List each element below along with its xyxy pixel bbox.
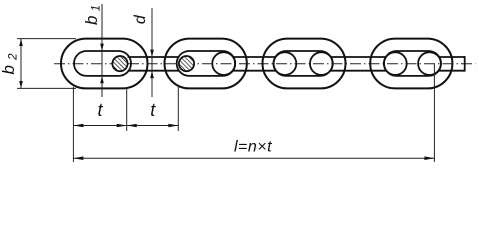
half bar at right end — [439, 56, 465, 72]
extension line right (l) — [433, 64, 435, 162]
dimension b2 (outer width) — [17, 39, 76, 89]
svg-text:b2: b2 — [0, 53, 20, 75]
label t second — [150, 100, 156, 120]
label l=n&#215;t — [234, 139, 272, 156]
link 4 outer oval — [370, 39, 452, 89]
bar (edge-on link) between link 1 and link 2 — [128, 57, 179, 71]
bar between link 2 and link 3 — [233, 57, 276, 71]
dimension b1 (inner width) — [100, 4, 104, 97]
link 3 outer oval — [263, 39, 346, 89]
eye circle link 3 right — [310, 52, 333, 75]
extension line middle (t) — [126, 89, 128, 132]
dimension d (wire diameter) — [150, 8, 154, 97]
eye circle link 4 right — [418, 52, 441, 75]
extension line left (t / l) — [72, 87, 74, 162]
label b1 — [82, 5, 103, 25]
eye circle link 3 left — [274, 52, 297, 75]
svg-text:d: d — [132, 14, 149, 24]
link 2 outer oval — [165, 39, 247, 89]
label d — [132, 14, 149, 24]
dimension l overall length — [73, 156, 434, 160]
centerline — [54, 63, 476, 65]
link 1 outer oval — [61, 39, 148, 89]
dimension t first pitch — [73, 124, 126, 128]
link 1 inner slot — [74, 51, 131, 76]
svg-text:t: t — [97, 100, 103, 120]
svg-text:b1: b1 — [82, 5, 103, 25]
link 3 inner slot — [274, 51, 333, 76]
svg-text:t: t — [150, 100, 156, 120]
pin section in link 2 (hatched circle) — [179, 56, 194, 71]
pin section in link 1 (hatched circle) — [112, 56, 127, 71]
svg-text:l=n×t: l=n×t — [234, 139, 272, 156]
label b2 — [0, 53, 20, 75]
eye circle link 4 left — [384, 52, 407, 75]
bar between link 3 and link 4 — [331, 57, 387, 71]
link 2 inner slot — [177, 51, 236, 76]
extension line right (t) — [177, 87, 179, 131]
link 4 inner slot — [384, 51, 441, 76]
eye circle link 2 right — [212, 52, 235, 75]
dimension t second pitch — [127, 124, 179, 128]
label t first — [97, 100, 103, 120]
